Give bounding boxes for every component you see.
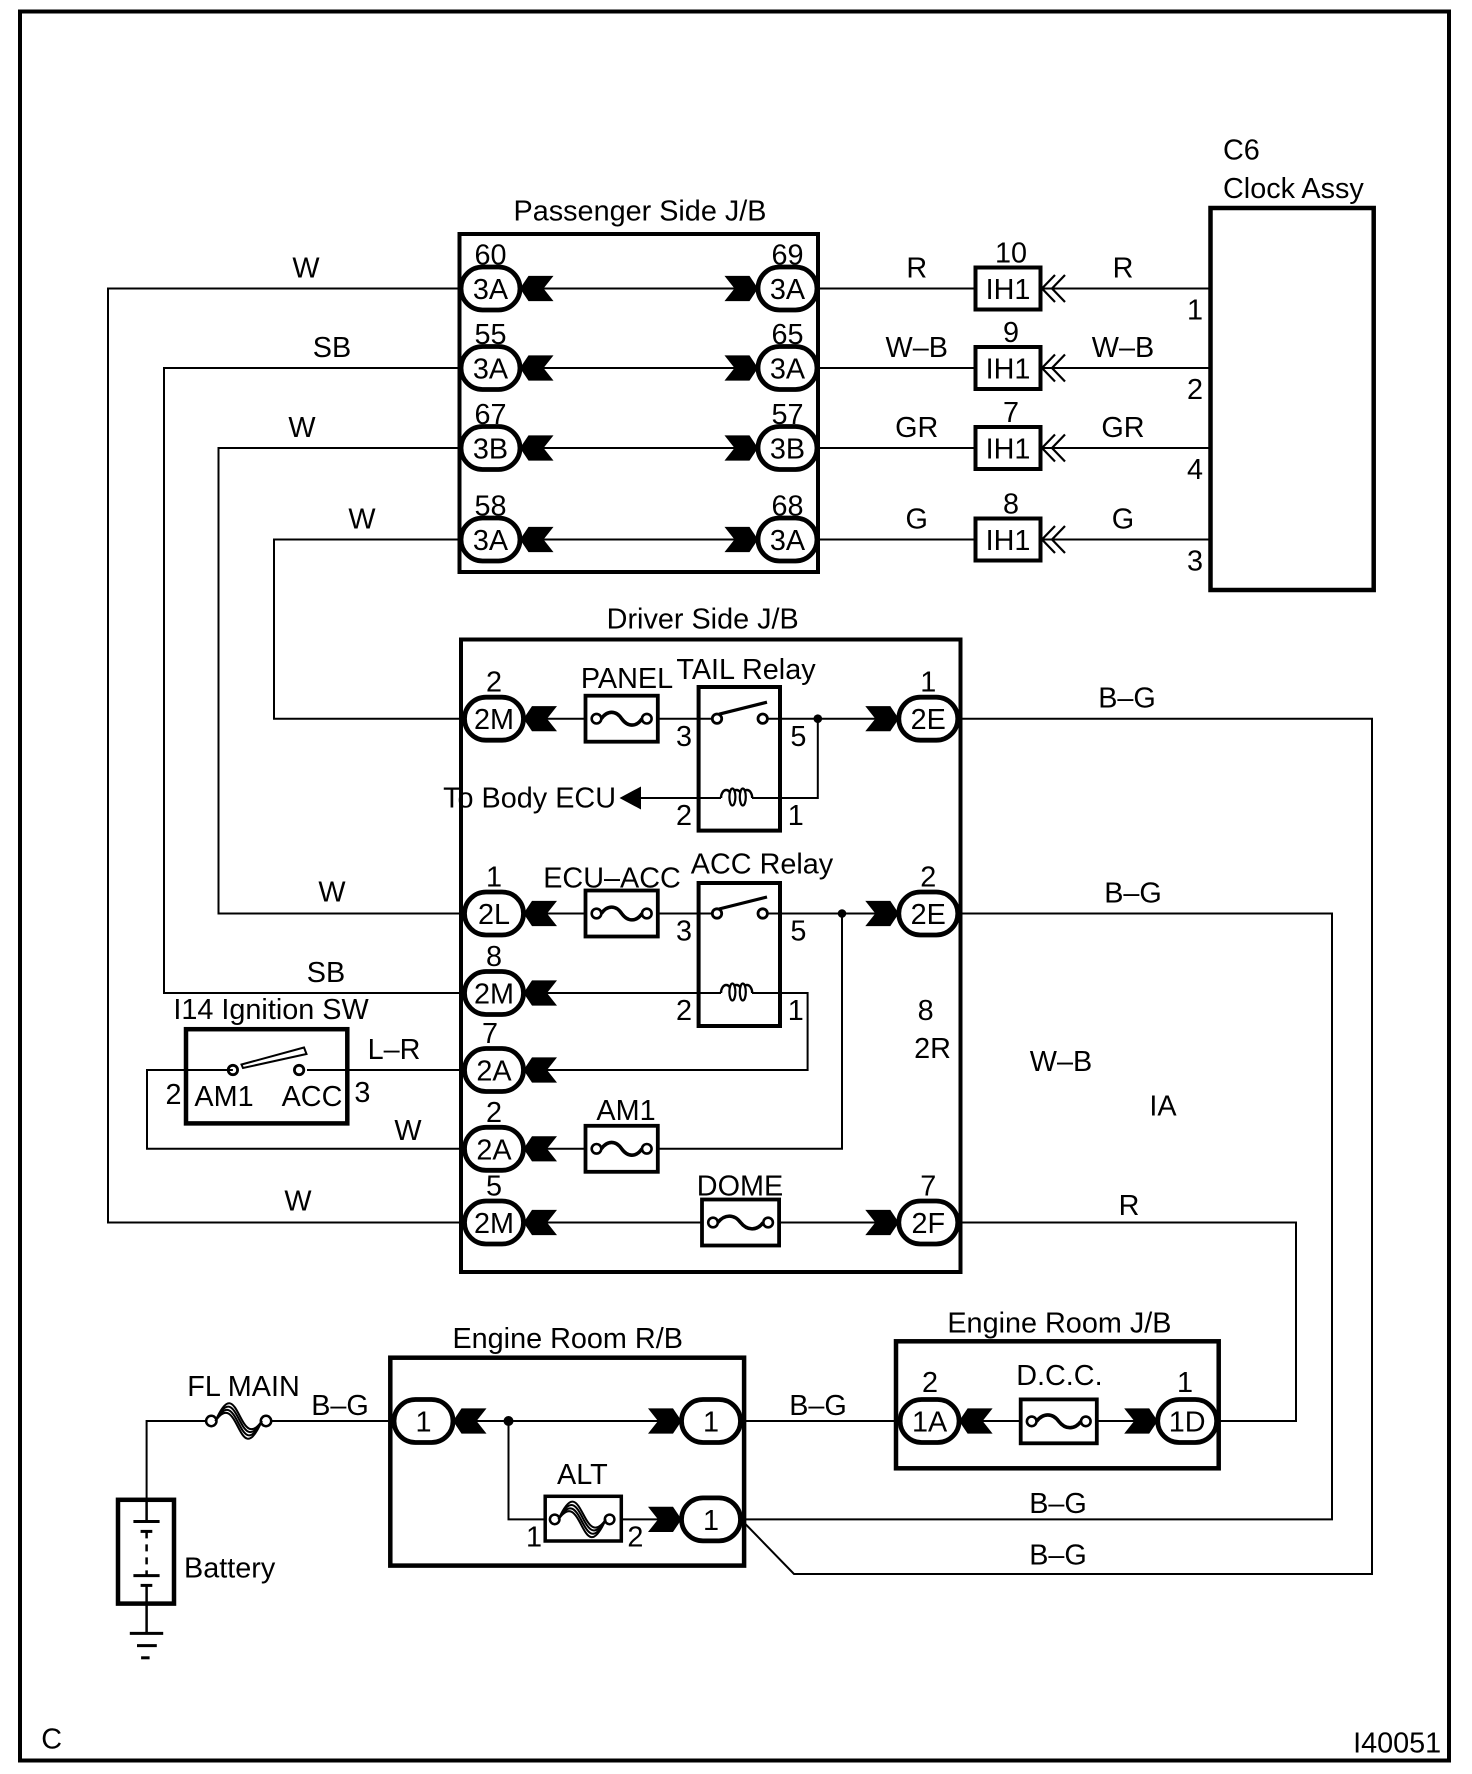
label W-B (harness note) bbox=[1030, 1046, 1092, 1078]
wire color label W–B bbox=[886, 332, 948, 364]
wire ECU-ACC fuse to ACC relay pin 3 bbox=[658, 913, 717, 915]
TAIL relay coil bbox=[699, 789, 780, 806]
label IA (harness note) bbox=[1149, 1091, 1177, 1123]
svg-text:1D: 1D bbox=[1169, 1407, 1206, 1439]
svg-text:2: 2 bbox=[920, 862, 936, 894]
arrow into connector 2E-2 bbox=[865, 901, 899, 926]
svg-text:3A: 3A bbox=[770, 354, 806, 386]
TAIL relay switch contacts bbox=[712, 702, 767, 723]
wire from Passenger J/B to IH1 (W–B) bbox=[818, 367, 976, 369]
arrow into connector 2F-7 bbox=[865, 1210, 899, 1235]
svg-text:W–B: W–B bbox=[886, 332, 948, 364]
TAIL relay pin 3 label bbox=[676, 721, 692, 753]
svg-text:SB: SB bbox=[307, 957, 345, 989]
female connector chevrons IH1-10 bbox=[1042, 275, 1065, 302]
svg-text:2: 2 bbox=[676, 800, 692, 832]
wire color label R bbox=[906, 253, 927, 285]
wire 2A-2 to AM1 fuse bbox=[524, 1148, 586, 1150]
fuse DOME bbox=[697, 1171, 783, 1246]
connector 3A pin 58 (left) bbox=[461, 518, 520, 561]
svg-text:Battery: Battery bbox=[184, 1553, 276, 1585]
arrow To Body ECU bbox=[620, 787, 642, 810]
junction block: Driver Side J/B bbox=[461, 604, 961, 1273]
svg-text:3B: 3B bbox=[473, 434, 508, 466]
svg-text:W: W bbox=[394, 1115, 422, 1147]
svg-text:DOME: DOME bbox=[697, 1171, 783, 1203]
node junction dot at ACC relay output bbox=[838, 909, 847, 918]
wire SB: 3A-55 to 2M-8 (left loop) bbox=[164, 368, 466, 993]
label To Body ECU bbox=[443, 783, 616, 815]
wire from Passenger J/B to IH1 (G) bbox=[818, 539, 976, 541]
junction block: Passenger Side J/B bbox=[460, 196, 819, 573]
svg-text:AM1: AM1 bbox=[194, 1081, 253, 1113]
svg-text:3A: 3A bbox=[473, 274, 509, 306]
ACC relay pin 1 label bbox=[788, 995, 804, 1027]
svg-text:B–G: B–G bbox=[1029, 1540, 1087, 1572]
wire color label SB (near 2M-8) bbox=[307, 957, 345, 989]
wire color label R (2F run) bbox=[1119, 1190, 1140, 1222]
arrow into connector 2A-7 bbox=[524, 1057, 558, 1082]
connector 2E pin 2 bbox=[899, 862, 958, 936]
svg-text:2: 2 bbox=[922, 1367, 938, 1399]
pin number 57 bbox=[771, 399, 803, 431]
wire B-G: 2E-2 to ALT output (right loop) bbox=[744, 914, 1332, 1520]
switch I14 Ignition SW box bbox=[173, 994, 369, 1123]
connector 2A pin 7 bbox=[465, 1018, 524, 1092]
svg-text:IH1: IH1 bbox=[986, 274, 1031, 306]
svg-text:1: 1 bbox=[1187, 295, 1203, 327]
svg-text:10: 10 bbox=[995, 238, 1027, 270]
fusible link FL MAIN bbox=[187, 1371, 300, 1439]
wire color label W (top row 3) bbox=[288, 412, 316, 444]
wire ALT to output connector bbox=[621, 1518, 680, 1520]
svg-text:2M: 2M bbox=[474, 1208, 514, 1240]
svg-text:9: 9 bbox=[1003, 317, 1019, 349]
arrow into R/B input connector 1 bbox=[453, 1408, 487, 1433]
wire W: 3A-60 to 2M-5 (left loop) bbox=[108, 289, 466, 1223]
svg-text:7: 7 bbox=[1003, 397, 1019, 429]
svg-text:D.C.C.: D.C.C. bbox=[1016, 1360, 1102, 1392]
svg-text:4: 4 bbox=[1187, 454, 1203, 486]
svg-text:Passenger Side J/B: Passenger Side J/B bbox=[514, 196, 767, 228]
junction block: Engine Room R/B bbox=[390, 1323, 744, 1566]
arrow into connector 2M-5 bbox=[524, 1210, 558, 1235]
svg-text:W–B: W–B bbox=[1030, 1046, 1092, 1078]
pin number 67 bbox=[474, 399, 506, 431]
arrow into connector 55 bbox=[520, 355, 554, 380]
wire color label L-R bbox=[368, 1034, 421, 1066]
svg-text:Engine Room J/B: Engine Room J/B bbox=[947, 1307, 1171, 1339]
svg-text:3B: 3B bbox=[770, 434, 805, 466]
clock pin number 1 bbox=[1187, 295, 1203, 327]
wire ACC relay coil pin 1 down to 2A-7 bbox=[524, 993, 808, 1070]
wire junction down to TAIL relay coil pin 1 bbox=[780, 719, 818, 798]
svg-text:1: 1 bbox=[486, 862, 502, 894]
connector 1A pin 2 bbox=[900, 1367, 959, 1443]
arrow into connector 1D bbox=[1124, 1408, 1158, 1433]
junction block: Engine Room J/B bbox=[896, 1307, 1219, 1468]
wire Passenger J/B internal row 1 bbox=[491, 288, 788, 290]
svg-text:ALT: ALT bbox=[557, 1459, 608, 1491]
wire color label W–B bbox=[1092, 332, 1154, 364]
wire from IH1 to Clock pin 1 bbox=[1043, 288, 1211, 290]
label I40051 (figure number) bbox=[1353, 1728, 1441, 1760]
clock pin number 3 bbox=[1187, 546, 1203, 578]
arrow into connector 58 bbox=[520, 527, 554, 552]
connector IH1 pin 8 bbox=[976, 489, 1041, 561]
pin number 58 bbox=[474, 491, 506, 523]
connector 2M pin 2 bbox=[465, 667, 524, 741]
wire color label W (top row 4) bbox=[348, 504, 376, 536]
wire color label B-G (bottom diagonal run) bbox=[1029, 1540, 1087, 1572]
connector 1 (R/B output top) bbox=[682, 1400, 741, 1443]
ignition switch AM1 contact bbox=[228, 1065, 237, 1074]
pin number 60 bbox=[474, 240, 506, 272]
wire AM1 fuse to ACC relay output junction bbox=[658, 914, 842, 1149]
connector 2A pin 2 bbox=[465, 1097, 524, 1171]
wire from IH1 to Clock pin 2 bbox=[1043, 367, 1211, 369]
wire 1A to D.C.C. fuse bbox=[930, 1420, 1021, 1422]
svg-text:B–G: B–G bbox=[789, 1390, 847, 1422]
svg-text:2: 2 bbox=[627, 1522, 643, 1554]
svg-text:8: 8 bbox=[486, 941, 502, 973]
ACC relay pin 2 label bbox=[676, 995, 692, 1027]
svg-text:1: 1 bbox=[526, 1522, 542, 1554]
svg-text:B–G: B–G bbox=[1098, 683, 1156, 715]
arrow into connector 2M-2 bbox=[524, 706, 558, 731]
svg-text:L–R: L–R bbox=[368, 1034, 421, 1066]
svg-text:68: 68 bbox=[771, 491, 803, 523]
ignition switch ACC contact bbox=[294, 1065, 303, 1074]
connector 2E pin 1 bbox=[899, 667, 958, 741]
arrow into connector 57 bbox=[725, 435, 759, 460]
wire DOME fuse to 2F-7 bbox=[779, 1222, 899, 1224]
svg-text:R: R bbox=[906, 253, 927, 285]
node junction dot at TAIL relay output bbox=[814, 714, 823, 723]
female connector chevrons IH1-7 bbox=[1042, 435, 1065, 462]
arrow into connector 2M-8 bbox=[524, 980, 558, 1005]
svg-text:2A: 2A bbox=[476, 1134, 512, 1166]
wire color label G bbox=[906, 504, 928, 536]
battery B1 bbox=[118, 1500, 276, 1604]
wire color label W (near 2A-2) bbox=[394, 1115, 422, 1147]
svg-text:2: 2 bbox=[486, 667, 502, 699]
TAIL relay pin 1 label bbox=[788, 800, 804, 832]
pin number 69 bbox=[771, 240, 803, 272]
wire from IH1 to Clock pin 4 bbox=[1043, 447, 1211, 449]
arrow into connector 67 bbox=[520, 435, 554, 460]
svg-text:2M: 2M bbox=[474, 704, 514, 736]
svg-text:B–G: B–G bbox=[311, 1390, 369, 1422]
ACC relay pin 3 label bbox=[676, 916, 692, 948]
svg-text:2: 2 bbox=[165, 1079, 181, 1111]
wire Passenger J/B internal row 4 bbox=[491, 539, 788, 541]
female connector chevrons IH1-9 bbox=[1042, 355, 1065, 382]
svg-text:FL MAIN: FL MAIN bbox=[187, 1371, 300, 1403]
svg-text:TAIL Relay: TAIL Relay bbox=[676, 654, 816, 686]
svg-text:ACC Relay: ACC Relay bbox=[691, 849, 834, 881]
wire FL MAIN to Engine Room R/B bbox=[272, 1420, 393, 1422]
svg-text:2: 2 bbox=[1187, 374, 1203, 406]
wire battery positive to FL MAIN bbox=[147, 1421, 206, 1500]
wire B-G: 2E-1 to engine room (right loop) bbox=[743, 719, 1372, 1574]
wire D.C.C. fuse to 1D bbox=[1097, 1420, 1158, 1422]
label 8 2R (case ground codes) bbox=[914, 995, 951, 1065]
svg-text:SB: SB bbox=[313, 332, 351, 364]
svg-text:3: 3 bbox=[354, 1077, 370, 1109]
wire color label GR bbox=[1101, 412, 1144, 444]
svg-text:To Body ECU: To Body ECU bbox=[443, 783, 616, 815]
svg-text:W: W bbox=[288, 412, 316, 444]
wire color label W (bottom near 2M-5) bbox=[284, 1186, 312, 1218]
svg-text:Engine Room R/B: Engine Room R/B bbox=[452, 1323, 683, 1355]
clock pin number 4 bbox=[1187, 454, 1203, 486]
svg-text:3: 3 bbox=[1187, 546, 1203, 578]
connector 1 (R/B ALT output) bbox=[682, 1498, 741, 1541]
svg-text:7: 7 bbox=[482, 1018, 498, 1050]
svg-text:G: G bbox=[906, 504, 928, 536]
ignition switch ACC label bbox=[282, 1081, 343, 1113]
svg-text:W: W bbox=[284, 1186, 312, 1218]
svg-text:3A: 3A bbox=[770, 525, 806, 557]
svg-text:65: 65 bbox=[771, 319, 803, 351]
wire color label R bbox=[1113, 253, 1134, 285]
wire W: 3A-58 to 2M-2 (left loop) bbox=[274, 540, 466, 719]
svg-text:C6: C6 bbox=[1223, 135, 1260, 167]
wire TAIL relay coil pin 2 to Body ECU bbox=[640, 797, 699, 799]
wire from Passenger J/B to IH1 (R) bbox=[818, 288, 976, 290]
svg-text:1A: 1A bbox=[912, 1407, 948, 1439]
connector 3A pin 65 (right) bbox=[758, 347, 817, 390]
svg-text:1: 1 bbox=[788, 995, 804, 1027]
svg-text:57: 57 bbox=[771, 399, 803, 431]
arrow into connector 2E-1 bbox=[865, 706, 899, 731]
wire AM1 contact to 2A-2 (W) bbox=[147, 1070, 524, 1149]
svg-text:W: W bbox=[348, 504, 376, 536]
connector 2F pin 7 bbox=[899, 1171, 958, 1245]
svg-text:1: 1 bbox=[703, 1505, 719, 1537]
svg-text:IA: IA bbox=[1149, 1091, 1177, 1123]
svg-text:IH1: IH1 bbox=[986, 354, 1031, 386]
connector 3A pin 68 (right) bbox=[758, 518, 817, 561]
fuse ECU-ACC bbox=[543, 863, 681, 937]
wire ACC contact to 2A-7 (L-R) bbox=[307, 1069, 466, 1071]
svg-text:5: 5 bbox=[486, 1171, 502, 1203]
svg-text:W–B: W–B bbox=[1092, 332, 1154, 364]
svg-text:R: R bbox=[1113, 253, 1134, 285]
node junction dot in R/B bbox=[504, 1416, 514, 1426]
arrow into R/B output connector 1 (top) bbox=[648, 1408, 682, 1433]
wire TAIL relay pin 5 to 2E-1 bbox=[768, 718, 899, 720]
wire 2M-5 to DOME fuse bbox=[524, 1222, 703, 1224]
svg-text:1: 1 bbox=[788, 800, 804, 832]
svg-text:1: 1 bbox=[1177, 1367, 1193, 1399]
wire ACC relay pin 5 to 2E-2 bbox=[768, 913, 899, 915]
svg-text:8: 8 bbox=[1003, 489, 1019, 521]
arrow into connector 69 bbox=[725, 276, 759, 301]
svg-text:IH1: IH1 bbox=[986, 525, 1031, 557]
ALT pin 2 label bbox=[627, 1522, 643, 1554]
svg-text:2A: 2A bbox=[476, 1056, 512, 1088]
arrow into connector 60 bbox=[520, 276, 554, 301]
svg-text:W: W bbox=[292, 253, 320, 285]
svg-text:2E: 2E bbox=[911, 704, 946, 736]
svg-text:2: 2 bbox=[486, 1097, 502, 1129]
svg-text:67: 67 bbox=[474, 399, 506, 431]
wire color label B-G (to 1A) bbox=[789, 1390, 847, 1422]
svg-text:AM1: AM1 bbox=[596, 1095, 655, 1127]
wire W: 3B-67 to 2L-1 (left loop) bbox=[219, 448, 467, 914]
wire from IH1 to Clock pin 3 bbox=[1043, 539, 1211, 541]
wire battery negative to ground bbox=[145, 1604, 148, 1634]
wire color label SB (top row 2) bbox=[313, 332, 351, 364]
wire color label B-G (ALT output run) bbox=[1029, 1488, 1087, 1520]
wire color label W (top row 1) bbox=[292, 253, 320, 285]
connector 3A pin 69 (right) bbox=[758, 267, 817, 310]
wire from Passenger J/B to IH1 (GR) bbox=[818, 447, 976, 449]
clock pin number 2 bbox=[1187, 374, 1203, 406]
svg-text:3A: 3A bbox=[770, 274, 806, 306]
svg-text:C: C bbox=[41, 1723, 62, 1755]
svg-text:5: 5 bbox=[790, 916, 806, 948]
arrow into connector 65 bbox=[725, 355, 759, 380]
svg-text:58: 58 bbox=[474, 491, 506, 523]
connector 2M pin 5 bbox=[465, 1171, 524, 1245]
wire R/B top output to 1A (B-G) bbox=[742, 1420, 900, 1422]
wire color label B-G (top right) bbox=[1098, 683, 1156, 715]
svg-text:1: 1 bbox=[920, 667, 936, 699]
connector 3B pin 57 (right) bbox=[758, 427, 817, 470]
svg-text:I40051: I40051 bbox=[1353, 1728, 1441, 1760]
wire color label B-G (2E-2 run) bbox=[1104, 878, 1162, 910]
svg-text:Clock Assy: Clock Assy bbox=[1223, 173, 1364, 205]
connector IH1 pin 10 bbox=[976, 238, 1041, 310]
svg-text:B–G: B–G bbox=[1029, 1488, 1087, 1520]
connector 2L pin 1 bbox=[465, 862, 524, 936]
svg-text:I14 Ignition SW: I14 Ignition SW bbox=[173, 994, 369, 1026]
connector 3B pin 67 (left) bbox=[461, 427, 520, 470]
wire color label W (near 2L) bbox=[318, 877, 346, 909]
wire 2M-8 to ACC relay coil pin 2 bbox=[524, 992, 699, 994]
svg-text:B–G: B–G bbox=[1104, 878, 1162, 910]
ACC relay switch contacts bbox=[712, 897, 767, 918]
fuse AM1 bbox=[586, 1095, 658, 1172]
svg-text:2: 2 bbox=[676, 995, 692, 1027]
svg-text:3A: 3A bbox=[473, 354, 509, 386]
ignition switch AM1 label bbox=[194, 1081, 253, 1113]
svg-text:GR: GR bbox=[1101, 412, 1144, 444]
pin number 68 bbox=[771, 491, 803, 523]
ground symbol bbox=[130, 1633, 163, 1657]
arrow into connector 1A bbox=[959, 1408, 993, 1433]
svg-text:3: 3 bbox=[676, 916, 692, 948]
wire R: 2F-7 to 1D (right loop) bbox=[958, 1223, 1296, 1422]
connector 3A pin 60 (left) bbox=[461, 267, 520, 310]
label C (page code) bbox=[41, 1723, 62, 1755]
ALT pin 1 label bbox=[526, 1522, 542, 1554]
wire R/B internal top row bbox=[424, 1420, 681, 1422]
pin number 65 bbox=[771, 319, 803, 351]
wire 2L to ECU-ACC fuse bbox=[524, 913, 586, 915]
connector IH1 pin 9 bbox=[976, 317, 1041, 389]
ignition switch pin 3 label bbox=[354, 1077, 370, 1109]
connector 2M pin 8 bbox=[465, 941, 524, 1015]
wire color label G bbox=[1112, 504, 1134, 536]
arrow into R/B output connector 1 (bottom) bbox=[648, 1507, 682, 1532]
svg-text:3: 3 bbox=[676, 721, 692, 753]
connector 1 (R/B battery input) bbox=[394, 1400, 453, 1443]
svg-text:2F: 2F bbox=[911, 1208, 945, 1240]
svg-text:GR: GR bbox=[895, 412, 938, 444]
svg-text:8: 8 bbox=[918, 995, 934, 1027]
ACC relay coil bbox=[699, 984, 780, 1001]
svg-text:G: G bbox=[1112, 504, 1134, 536]
svg-text:ACC: ACC bbox=[282, 1081, 343, 1113]
wire Passenger J/B internal row 3 bbox=[491, 447, 788, 449]
wire junction down to ALT fusible link bbox=[509, 1421, 546, 1519]
arrow into connector 2L bbox=[524, 901, 558, 926]
svg-text:Driver Side J/B: Driver Side J/B bbox=[607, 604, 799, 636]
svg-text:2M: 2M bbox=[474, 979, 514, 1011]
svg-text:1: 1 bbox=[703, 1407, 719, 1439]
wire color label GR bbox=[895, 412, 938, 444]
TAIL relay pin 2 label bbox=[676, 800, 692, 832]
fuse PANEL bbox=[581, 663, 673, 742]
svg-text:R: R bbox=[1119, 1190, 1140, 1222]
svg-text:7: 7 bbox=[920, 1171, 936, 1203]
svg-text:PANEL: PANEL bbox=[581, 663, 673, 695]
arrow into connector 2A-2 bbox=[524, 1136, 558, 1161]
ACC relay pin 5 label bbox=[790, 916, 806, 948]
wire 2M-2 to PANEL fuse bbox=[524, 718, 586, 720]
wire Passenger J/B internal row 2 bbox=[491, 367, 788, 369]
ignition switch lever bbox=[242, 1048, 307, 1069]
svg-text:69: 69 bbox=[771, 240, 803, 272]
svg-text:IH1: IH1 bbox=[986, 434, 1031, 466]
connector 3A pin 55 (left) bbox=[461, 347, 520, 390]
wire color label B-G (FL MAIN run) bbox=[311, 1390, 369, 1422]
component C6 Clock Assy bbox=[1211, 135, 1374, 591]
fusible link ALT bbox=[545, 1459, 621, 1541]
fuse D.C.C. bbox=[1016, 1360, 1102, 1443]
arrow into connector 68 bbox=[725, 527, 759, 552]
pin number 55 bbox=[474, 319, 506, 351]
svg-text:5: 5 bbox=[790, 721, 806, 753]
svg-text:55: 55 bbox=[474, 319, 506, 351]
svg-text:2R: 2R bbox=[914, 1033, 951, 1065]
relay ACC Relay box bbox=[691, 849, 834, 1027]
connector IH1 pin 7 bbox=[976, 397, 1041, 469]
female connector chevrons IH1-8 bbox=[1042, 526, 1065, 553]
svg-text:3A: 3A bbox=[473, 525, 509, 557]
wire PANEL fuse to TAIL relay pin 3 bbox=[658, 718, 717, 720]
svg-text:W: W bbox=[318, 877, 346, 909]
svg-text:1: 1 bbox=[415, 1407, 431, 1439]
svg-text:ECU–ACC: ECU–ACC bbox=[543, 863, 681, 895]
relay TAIL Relay box bbox=[676, 654, 816, 831]
ignition switch pin 2 label bbox=[165, 1079, 181, 1111]
svg-text:2L: 2L bbox=[478, 899, 510, 931]
TAIL relay pin 5 label bbox=[790, 721, 806, 753]
svg-text:2E: 2E bbox=[911, 899, 946, 931]
connector 1D pin 1 bbox=[1158, 1367, 1217, 1443]
svg-text:60: 60 bbox=[474, 240, 506, 272]
